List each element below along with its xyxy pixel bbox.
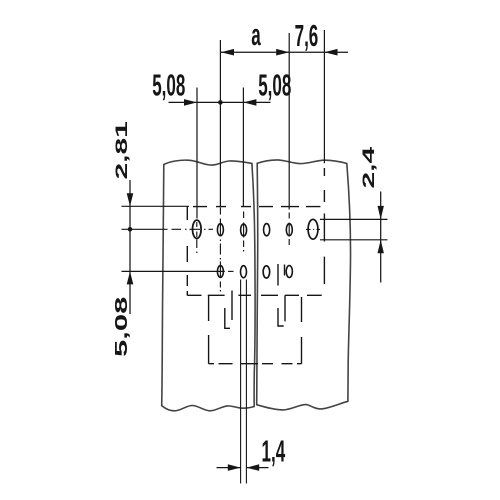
row1 center line dash-dot	[172, 228, 214, 230]
arrow 1,4 right (points left)	[246, 464, 259, 471]
dashed step detail left a	[231, 291, 233, 321]
arrow 2,4 up	[378, 240, 384, 254]
2,4 dimension line vertical	[380, 192, 382, 283]
row1 center line inside big right hole	[306, 228, 320, 230]
svg-text:2,4: 2,4	[359, 146, 378, 188]
dashed housing outline top edge y=206.6	[193, 206, 320, 208]
dashed lower outline left edge x=208.6	[208, 295, 210, 363]
dashed housing outline left edge x=187.3	[186, 207, 188, 296]
dimension line left vertical x=130	[129, 180, 131, 314]
1,4 dimension line left part	[217, 467, 241, 469]
hole row1 big hole left	[193, 220, 202, 238]
dashed housing outline bottom edge y=295.3	[187, 294, 321, 296]
hole row1 n3	[241, 224, 247, 236]
arrow a right / 7,6 left shared	[276, 49, 289, 56]
centerline x=289.2	[288, 213, 290, 246]
hole row1 n4	[264, 224, 270, 236]
dashed step detail right a	[278, 264, 284, 326]
PCB panel right (torn-edge outline)	[257, 160, 351, 410]
chain dot left	[128, 227, 133, 232]
extension line x=197	[196, 88, 198, 219]
PCB panel left (torn-edge outline)	[162, 160, 255, 411]
row1 center line left solid	[122, 228, 168, 230]
dashed step detail right b	[284, 265, 286, 276]
svg-text:5,08: 5,08	[111, 297, 131, 357]
row2 center line dash	[228, 270, 234, 272]
extension line x=243.4	[242, 88, 244, 208]
svg-text:2,81: 2,81	[112, 121, 131, 179]
hole row2 n1	[217, 266, 223, 278]
arrow 5,08 up	[127, 271, 134, 284]
dashed housing outline right edge x=324.4	[323, 168, 325, 284]
centerline x=220.4 through holes	[219, 208, 221, 292]
2,4 tangent line bottom	[320, 239, 388, 241]
arrow 5,08 right (points left)	[243, 99, 256, 106]
extension line x=220.4	[219, 40, 221, 207]
svg-text:5,08: 5,08	[258, 68, 291, 103]
1,4 tangent line right	[245, 280, 247, 484]
hole row2 n3	[263, 266, 270, 278]
dashed step detail left b (L shape)	[225, 308, 230, 328]
svg-text:5,08: 5,08	[152, 68, 185, 103]
hole row1 n2	[217, 224, 223, 236]
extension line x=289.2	[288, 33, 290, 210]
extension line x=324.4	[323, 30, 325, 163]
row2 center line left solid	[122, 270, 225, 272]
arrow 1,4 left (points right)	[228, 464, 241, 471]
arrow a left	[221, 49, 234, 56]
hole row2 n2	[241, 266, 247, 278]
svg-text:1,4: 1,4	[262, 434, 286, 469]
arrow 2,4 down	[378, 206, 384, 220]
dashed step detail right c	[284, 295, 286, 321]
2,4 tangent line top	[320, 218, 388, 220]
extension line y=206.3	[122, 205, 190, 207]
1,4 dimension line right part	[246, 467, 268, 469]
dimension 5,08 mid line	[169, 101, 271, 103]
dashed lower outline right edge x=301.5	[301, 297, 303, 364]
arrow 2,81 down	[127, 193, 134, 206]
dimension a top line	[221, 51, 348, 53]
centerline x=196.8 below hole	[196, 222, 198, 253]
hole row1 n5	[286, 224, 292, 236]
arrow 7,6 right	[324, 49, 337, 56]
hole row2 n4	[286, 266, 292, 278]
centerline x=243.6	[243, 212, 245, 252]
dashed lower outline bottom edge y=363.7	[209, 363, 302, 365]
chain dot mid	[218, 100, 223, 105]
arrow 5,08 left (points right)	[184, 99, 197, 106]
hole row1 big hole right	[308, 219, 318, 239]
svg-text:a: a	[251, 18, 261, 53]
1,4 tangent line left	[240, 280, 242, 484]
svg-text:7,6: 7,6	[295, 19, 319, 54]
